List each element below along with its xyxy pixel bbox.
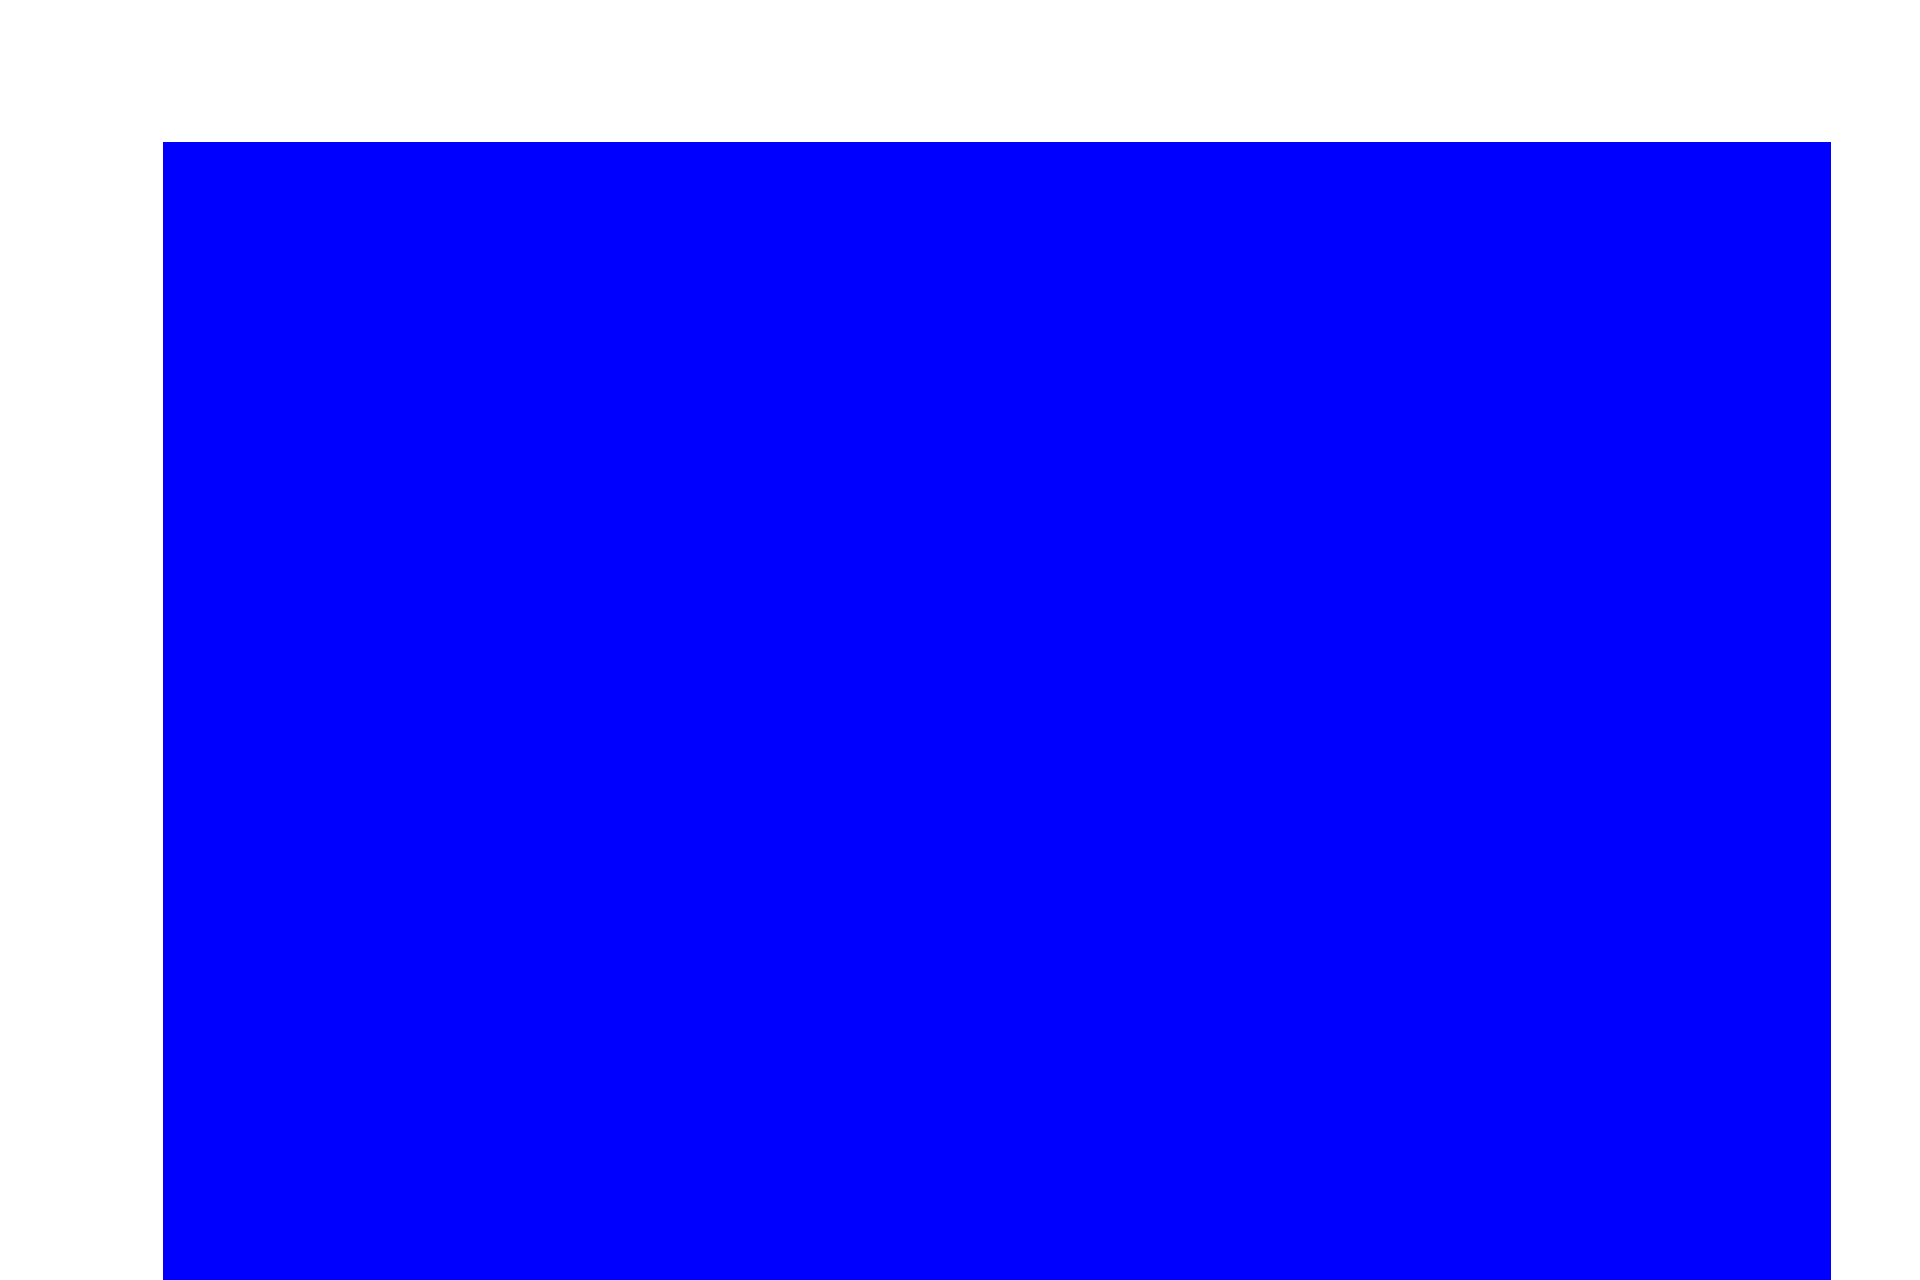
blue rectangle <box>163 142 1831 1280</box>
